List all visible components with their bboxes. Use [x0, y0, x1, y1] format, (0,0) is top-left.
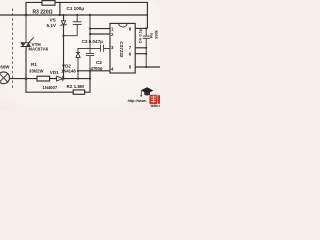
watermark graduation cap icon — [140, 87, 153, 96]
wire IC pin1 — [90, 28, 110, 30]
resistor R2 — [73, 90, 84, 94]
dashed enclosure line — [11, 9, 13, 90]
wire IC pin7 — [135, 47, 146, 49]
wire W2 lamp wire — [10, 71, 90, 79]
wire W1 to IC pin4 — [78, 70, 110, 72]
lamp EL — [0, 72, 10, 84]
diode VD1 1N4007 — [57, 76, 63, 81]
capacitor C1 — [64, 15, 82, 36]
watermark red seal character — [149, 95, 160, 104]
capacitor C4 0.1u — [143, 28, 150, 67]
resistor R1 — [37, 76, 50, 81]
wire zener anode down to VD1 junction — [63, 25, 65, 79]
junction node dots — [25, 14, 28, 17]
wire rail A drop to rail B — [59, 2, 61, 15]
wire rail A (top supply wire) — [26, 2, 147, 28]
capacitor C3 with wire to pin 3 — [78, 45, 110, 53]
wire rail B (second horizontal rail) — [0, 14, 147, 16]
zener diode VS 5.1V — [63, 15, 65, 21]
diode VD2 1N4148 — [76, 52, 80, 78]
wire riser and bottom rail with R2 — [26, 47, 90, 93]
op-amp IC U1 CS7232 box — [110, 23, 135, 73]
wire IC pin6 — [135, 53, 146, 55]
wire IC pin5 — [135, 66, 160, 68]
resistor R3 — [42, 1, 55, 6]
triac VTH MAC97A6 — [21, 15, 34, 47]
capacitor C2 — [86, 15, 94, 71]
wire IC pin2 — [90, 33, 110, 35]
wire IC pin8 — [135, 27, 147, 29]
